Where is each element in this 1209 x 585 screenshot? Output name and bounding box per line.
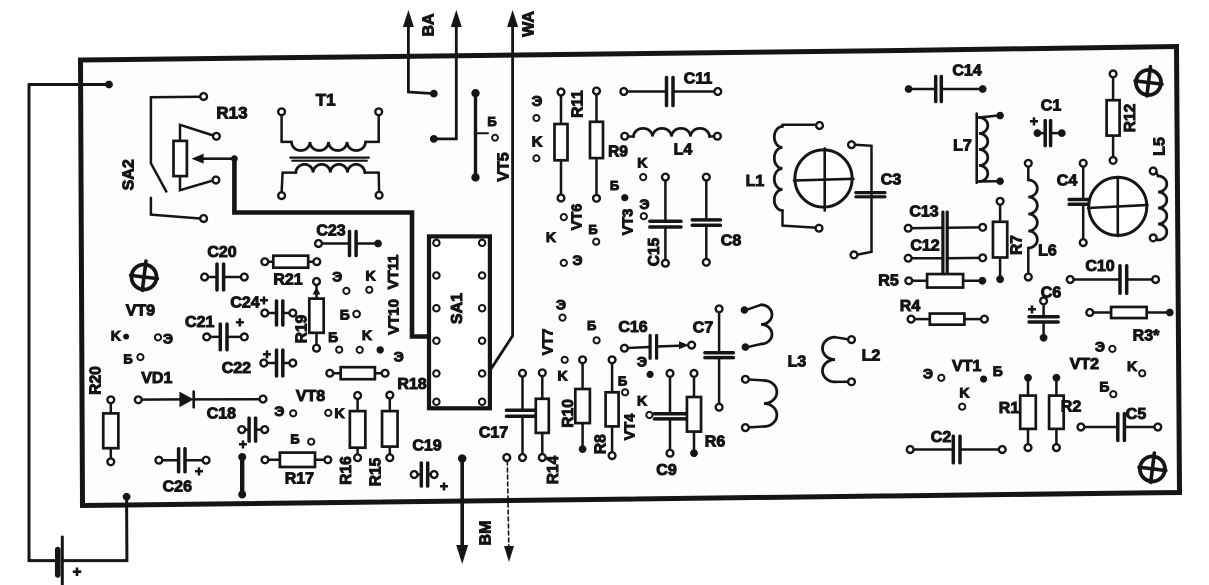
svg-text:C19: C19	[412, 438, 441, 455]
svg-text:C3: C3	[881, 172, 902, 189]
svg-text:C10: C10	[1085, 258, 1114, 275]
svg-text:R16: R16	[338, 456, 355, 485]
svg-text:VT9: VT9	[126, 302, 155, 319]
svg-text:Э: Э	[532, 93, 543, 110]
svg-text:Э: Э	[1095, 339, 1105, 355]
svg-text:Б: Б	[290, 431, 299, 446]
svg-text:C22: C22	[222, 360, 251, 377]
svg-text:Э: Э	[394, 348, 404, 364]
svg-text:Б: Б	[1099, 379, 1109, 395]
svg-text:R17: R17	[285, 471, 314, 488]
svg-text:L5: L5	[1152, 137, 1169, 156]
svg-text:VT8: VT8	[296, 388, 325, 405]
svg-text:C2: C2	[931, 429, 952, 446]
svg-text:Б: Б	[487, 114, 496, 129]
svg-text:+: +	[195, 463, 203, 479]
svg-text:VT10: VT10	[386, 299, 403, 335]
svg-text:L3: L3	[788, 354, 807, 371]
svg-text:K: K	[557, 368, 567, 384]
svg-text:+: +	[263, 346, 271, 362]
svg-text:C26: C26	[163, 479, 192, 496]
svg-text:VT2: VT2	[1070, 356, 1099, 373]
svg-text:R15: R15	[368, 457, 385, 486]
svg-text:Б: Б	[587, 318, 596, 333]
svg-text:L2: L2	[862, 348, 881, 365]
svg-text:Б: Б	[328, 329, 338, 345]
svg-text:K: K	[366, 268, 376, 284]
svg-text:C21: C21	[185, 314, 214, 331]
svg-text:C5: C5	[1126, 406, 1147, 423]
svg-text:Б: Б	[993, 363, 1003, 379]
svg-text:L6: L6	[1038, 243, 1057, 260]
svg-text:R3*: R3*	[1133, 328, 1160, 345]
svg-text:R2: R2	[1061, 399, 1082, 416]
svg-text:R4: R4	[900, 298, 921, 315]
svg-text:SA2: SA2	[121, 159, 138, 190]
svg-text:VT6: VT6	[570, 204, 586, 231]
svg-text:Э: Э	[274, 403, 284, 419]
svg-text:K: K	[959, 384, 969, 400]
svg-text:VT11: VT11	[385, 254, 402, 289]
svg-text:Б: Б	[588, 222, 597, 237]
svg-text:K: K	[334, 405, 344, 421]
svg-text:C14: C14	[952, 63, 981, 80]
svg-text:R14: R14	[545, 455, 562, 484]
svg-text:R18: R18	[397, 376, 426, 393]
svg-text:C17: C17	[479, 425, 508, 442]
svg-text:L4: L4	[674, 142, 693, 159]
svg-text:Э: Э	[332, 269, 342, 285]
svg-text:R21: R21	[273, 272, 302, 289]
svg-text:VT4: VT4	[623, 414, 639, 441]
svg-text:C16: C16	[618, 319, 647, 336]
svg-text:L7: L7	[953, 138, 972, 155]
svg-text:C1: C1	[1041, 98, 1062, 115]
svg-text:C13: C13	[909, 204, 938, 221]
svg-text:K: K	[1127, 358, 1137, 374]
svg-text:Б: Б	[610, 178, 619, 193]
svg-text:+: +	[260, 292, 268, 308]
svg-text:K: K	[362, 327, 372, 343]
svg-text:VD1: VD1	[141, 370, 172, 387]
svg-text:L1: L1	[746, 173, 765, 190]
svg-text:C9: C9	[656, 462, 677, 479]
svg-text:Б: Б	[340, 306, 350, 322]
svg-text:+: +	[1028, 301, 1036, 317]
svg-text:R5: R5	[878, 273, 899, 290]
svg-text:K: K	[637, 392, 647, 408]
svg-text:SA1: SA1	[449, 293, 466, 324]
svg-text:C4: C4	[1057, 173, 1078, 190]
svg-text:+: +	[239, 436, 247, 452]
svg-text:C8: C8	[721, 233, 742, 250]
svg-text:Э: Э	[556, 297, 566, 313]
svg-text:R19: R19	[294, 314, 311, 343]
svg-text:R11: R11	[570, 90, 587, 118]
svg-text:Э: Э	[637, 353, 647, 369]
svg-text:VT5: VT5	[495, 152, 512, 181]
svg-text:C24: C24	[230, 295, 259, 312]
svg-text:C15: C15	[646, 237, 663, 266]
svg-text:VT1: VT1	[952, 358, 981, 375]
svg-text:R20: R20	[88, 366, 105, 394]
svg-text:BM: BM	[478, 521, 495, 546]
svg-text:+: +	[440, 478, 448, 494]
svg-text:R6: R6	[705, 434, 726, 451]
svg-text:Э: Э	[923, 365, 933, 381]
svg-text:R1: R1	[999, 400, 1020, 417]
svg-text:+: +	[1030, 113, 1038, 129]
svg-text:K: K	[111, 327, 121, 343]
svg-text:K: K	[532, 134, 543, 151]
svg-text:K: K	[546, 229, 556, 245]
svg-text:R9: R9	[608, 144, 628, 161]
svg-text:VT7: VT7	[540, 329, 556, 356]
svg-text:K: K	[637, 154, 647, 170]
svg-text:R8: R8	[592, 434, 609, 454]
svg-text:C7: C7	[693, 320, 714, 337]
svg-text:R10: R10	[560, 399, 577, 427]
svg-text:R7: R7	[1009, 235, 1026, 255]
svg-text:+: +	[73, 564, 82, 581]
svg-text:T1: T1	[316, 91, 336, 110]
svg-text:Б: Б	[618, 373, 627, 388]
svg-text:C18: C18	[207, 406, 236, 423]
svg-text:R13: R13	[216, 104, 247, 123]
svg-text:C12: C12	[910, 238, 939, 255]
svg-text:Э: Э	[640, 196, 650, 212]
svg-text:Б: Б	[123, 351, 132, 366]
svg-text:+: +	[236, 314, 244, 330]
svg-text:BA: BA	[421, 13, 438, 37]
svg-text:C6: C6	[1041, 285, 1062, 302]
svg-text:WA: WA	[521, 11, 538, 37]
svg-text:R12: R12	[1122, 104, 1139, 132]
svg-text:Э: Э	[573, 252, 583, 268]
svg-text:C11: C11	[684, 71, 713, 88]
svg-text:C23: C23	[316, 223, 345, 240]
svg-text:C20: C20	[207, 244, 236, 261]
svg-text:VT3: VT3	[621, 209, 637, 236]
svg-text:Э: Э	[163, 331, 173, 347]
